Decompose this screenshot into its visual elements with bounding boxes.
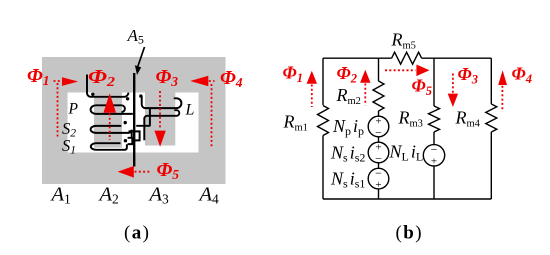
flux phi2 arrow [103,93,116,112]
pointer arrow to A5 [138,47,145,67]
resistor Rm1 [318,106,329,136]
polarity dot S1 [124,139,127,142]
branch 2 wire bottom [378,189,380,199]
top wire right segment [422,57,492,59]
mmf source Ns is2 [368,142,389,163]
svg-text:NLiL: NLiL [389,142,424,164]
winding L turn 2 [144,116,176,141]
svg-text:Φ1: Φ1 [283,63,303,86]
flux phi1 leg line [57,83,59,137]
flux phi3 arrow [159,91,161,129]
svg-text:Rm1: Rm1 [283,112,308,134]
core window opening [68,93,199,153]
winding L turn 2 right curl [174,110,179,116]
svg-text:A2: A2 [98,184,119,207]
branch 4 wire bottom [490,132,492,199]
svg-text:Φ4: Φ4 [512,64,532,87]
svg-text:Rm4: Rm4 [455,108,481,130]
branch 4 wire top [490,58,492,104]
svg-text:Nsis2: Nsis2 [330,143,365,165]
connector vertical [131,130,133,138]
bottom wire [323,198,491,200]
wire between sources 2 [378,163,380,169]
svg-text:Rm2: Rm2 [336,85,361,107]
winding L return link [136,109,150,126]
flux phi5 arrow [135,171,151,173]
branch 2 wire mid [378,111,380,116]
branch 3 wire bottom [433,166,435,199]
connector loop right of S windings [128,138,133,144]
polarity dot S2 [124,121,127,124]
svg-text:−: − [375,166,382,180]
core body (a) [42,57,226,184]
winding P turn [91,105,133,114]
svg-text:(a): (a) [124,223,150,244]
branch 2 wire top [378,58,380,81]
resistor Rm2 [373,81,384,111]
flux phi1 arrow (b) [307,71,317,84]
branch 3 wire mid [433,132,435,145]
svg-text:Φ5: Φ5 [412,76,432,99]
resistor Rm4 [486,104,497,132]
center leg A2 [94,93,122,148]
svg-text:Npip: Npip [332,116,364,138]
flux phi2 arrow (b) [360,70,370,83]
svg-text:A1: A1 [50,184,71,207]
branch 3 wire top [433,58,435,106]
svg-text:Nsis1: Nsis1 [330,169,365,191]
winding S1 turn [91,143,127,150]
svg-text:(b): (b) [396,223,423,244]
winding P top lead [87,75,128,97]
svg-text:Rm3: Rm3 [398,108,423,130]
top wire left segment [323,57,392,59]
center plate A5 [133,73,135,167]
winding L turn 1 [142,97,182,109]
svg-text:Rm5: Rm5 [391,30,416,52]
svg-text:+: + [431,156,437,168]
flux phi3 arrow (b) [452,74,454,94]
winding P right curl [122,105,125,112]
polarity dot L [139,94,142,97]
svg-text:L: L [185,102,195,119]
resistor Rm3 [429,106,440,132]
svg-text:Φ4: Φ4 [220,67,243,90]
svg-text:Φ3: Φ3 [458,64,478,87]
flux phi1 arrow [54,80,62,82]
svg-text:Φ2: Φ2 [337,63,357,86]
flux phi4 arrow [209,80,215,82]
polarity dot P [91,93,94,96]
center leg A3 [145,93,175,146]
flux phi4 arrow (b) [498,70,507,85]
flux phi5 arrow (b) [385,69,416,71]
svg-text:A4: A4 [198,184,220,207]
crossing link through plate [129,131,140,140]
winding S2 turn [91,126,132,133]
branch 1 wire top [322,58,324,105]
svg-text:−: − [431,142,438,156]
wire between sources [378,137,380,142]
flux phi4 leg line [211,84,213,147]
polarity dot P2 [126,97,129,100]
mmf source Ns is1 [368,168,389,189]
mmf source Np ip [368,116,389,137]
resistor Rm5 [392,52,422,64]
svg-text:A3: A3 [148,184,170,207]
mmf source NL iL [423,145,444,166]
svg-text:P: P [68,100,79,117]
branch 1 wire bottom [322,136,324,200]
svg-text:A5: A5 [127,26,144,47]
